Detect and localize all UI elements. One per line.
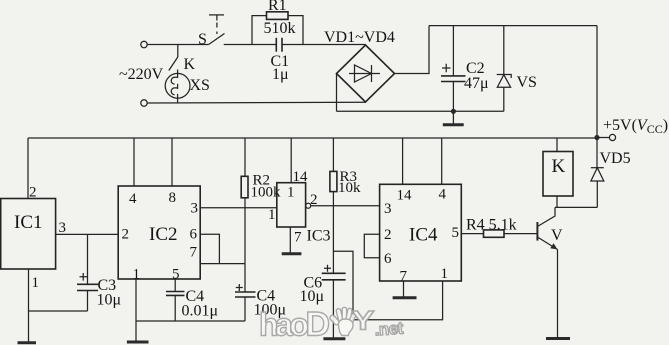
wire IC1 pin1 to C3 bottom xyxy=(29,310,88,312)
svg-text:2: 2 xyxy=(384,227,392,243)
ground (IC1) xyxy=(18,341,37,344)
svg-text:8: 8 xyxy=(169,190,177,206)
wire IC4 pin5 xyxy=(461,233,483,235)
capacitor C2 xyxy=(441,26,489,112)
svg-text:V: V xyxy=(551,227,563,244)
svg-text:4: 4 xyxy=(439,187,447,203)
bridge rectifier VD1~VD4 xyxy=(324,29,395,102)
svg-text:6: 6 xyxy=(190,227,198,243)
resistor R1 xyxy=(264,0,296,37)
svg-text:IC3: IC3 xyxy=(307,228,331,245)
wire IC4 pin2-6 bracket xyxy=(364,234,379,257)
socket XS xyxy=(165,70,210,104)
svg-text:VS: VS xyxy=(517,74,537,91)
svg-text:VD5: VD5 xyxy=(600,150,631,167)
svg-text:7: 7 xyxy=(190,245,198,261)
svg-text:10k: 10k xyxy=(338,180,361,196)
ground (IC3) xyxy=(282,252,302,255)
resistor R3 xyxy=(330,138,361,206)
wire R1 bracket left xyxy=(252,16,267,45)
capacitor C1 xyxy=(271,38,290,83)
wire IC2 pin6-7 bracket xyxy=(200,234,219,263)
resistor R2 xyxy=(241,138,281,264)
relay contact K xyxy=(169,45,196,74)
capacitor C4 100u xyxy=(235,264,286,321)
capacitor C4 0.01u xyxy=(166,279,218,321)
terminal AC live xyxy=(141,41,147,47)
IC4 xyxy=(380,138,462,285)
node +5V xyxy=(594,117,668,141)
diode VD5 xyxy=(591,138,631,208)
ground (C6) xyxy=(323,337,345,340)
svg-text:1: 1 xyxy=(268,207,276,223)
wire right bus xyxy=(596,26,598,138)
wire xyxy=(282,44,366,46)
wire top AC right of S xyxy=(224,44,277,46)
svg-text:D: D xyxy=(306,306,331,344)
wire IC3 pin2 to IC4 pin3 xyxy=(311,205,380,207)
wire +5V rail xyxy=(28,137,597,139)
wire collector node xyxy=(555,206,597,208)
svg-text:VD1~VD4: VD1~VD4 xyxy=(324,29,395,46)
wire bottom joining xyxy=(136,320,245,322)
wire bridge left corner to bottom rail xyxy=(336,74,338,112)
svg-text:S: S xyxy=(198,31,207,48)
svg-text:1μ: 1μ xyxy=(272,66,289,83)
wire R1 bracket right xyxy=(288,16,303,45)
wire bottom AC xyxy=(147,101,365,104)
svg-text:K: K xyxy=(184,56,196,73)
wire IC2 pin3 to IC3 pin1 xyxy=(200,207,277,209)
svg-text:R1: R1 xyxy=(268,0,287,14)
svg-text:1: 1 xyxy=(32,275,40,291)
svg-text:IC4: IC4 xyxy=(409,225,438,246)
svg-text:4: 4 xyxy=(129,191,137,207)
svg-text:2: 2 xyxy=(29,185,37,201)
wire IC2 pin7 xyxy=(200,263,245,265)
svg-text:K: K xyxy=(552,156,566,177)
capacitor C3 xyxy=(77,234,121,311)
wire bottom supply rail xyxy=(337,110,504,112)
svg-text:5: 5 xyxy=(452,225,460,241)
relay coil K xyxy=(543,138,573,207)
svg-text:7: 7 xyxy=(294,230,302,246)
svg-text:hao: hao xyxy=(259,307,308,343)
svg-text:.net: .net xyxy=(374,319,404,340)
svg-text:510k: 510k xyxy=(264,20,296,37)
mechanical link (dashed) xyxy=(209,15,224,34)
ground (emitter) xyxy=(546,337,570,340)
svg-text:6: 6 xyxy=(384,251,392,267)
switch S xyxy=(198,31,225,48)
IC1 xyxy=(1,138,119,343)
svg-text:3: 3 xyxy=(384,201,392,217)
svg-text:XS: XS xyxy=(190,77,210,94)
svg-text:IC1: IC1 xyxy=(14,212,43,233)
svg-text:14: 14 xyxy=(293,169,309,185)
ground (IC4 pin7) xyxy=(393,281,417,298)
svg-text:14: 14 xyxy=(397,188,413,204)
node supply ground junction xyxy=(451,109,456,114)
svg-text:1: 1 xyxy=(287,185,295,201)
wire top AC xyxy=(147,44,208,46)
wire IC2 pin1 down xyxy=(135,279,137,342)
svg-text:~220V: ~220V xyxy=(119,66,164,83)
resistor R4 xyxy=(466,217,537,238)
IC3 xyxy=(268,138,331,253)
capacitor C6 xyxy=(300,206,346,338)
wire top supply rail xyxy=(429,25,597,27)
ground (IC2) xyxy=(127,341,149,344)
svg-text:Y: Y xyxy=(352,305,375,335)
svg-text:10μ: 10μ xyxy=(97,292,122,309)
terminal AC neutral xyxy=(141,100,147,106)
IC2 xyxy=(118,138,200,283)
svg-text:R4 5.1k: R4 5.1k xyxy=(466,217,517,234)
svg-text:10μ: 10μ xyxy=(300,288,325,305)
svg-text:0.01μ: 0.01μ xyxy=(182,303,219,320)
ground (supply) xyxy=(443,111,464,125)
zener diode VS xyxy=(497,26,537,112)
svg-text:2: 2 xyxy=(122,227,130,243)
wire node to IC4 pin1 xyxy=(333,251,442,319)
transistor V xyxy=(537,207,563,337)
watermark xyxy=(259,305,404,343)
svg-text:1: 1 xyxy=(441,266,449,282)
svg-text:IC2: IC2 xyxy=(149,224,178,245)
svg-text:3: 3 xyxy=(191,201,199,217)
svg-text:47μ: 47μ xyxy=(464,75,489,92)
wire bridge right corner to top rail xyxy=(395,26,430,74)
svg-text:3: 3 xyxy=(59,220,67,236)
